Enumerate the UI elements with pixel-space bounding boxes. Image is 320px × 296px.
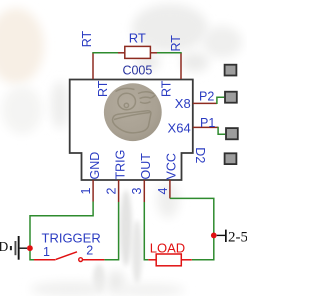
svg-text:C005: C005 <box>122 64 152 78</box>
svg-text:RT: RT <box>80 30 94 47</box>
svg-text:LOAD: LOAD <box>150 240 185 255</box>
svg-text:RT: RT <box>169 35 183 52</box>
svg-text:RT: RT <box>160 80 174 97</box>
svg-text:D2: D2 <box>193 147 207 163</box>
svg-text:GND: GND <box>88 152 102 180</box>
svg-text:1: 1 <box>43 245 50 259</box>
svg-text:3: 3 <box>130 188 144 195</box>
svg-text:2: 2 <box>86 244 93 258</box>
svg-text:TRIG: TRIG <box>114 150 128 180</box>
svg-text:RT: RT <box>129 31 146 46</box>
svg-text:D: D <box>0 239 9 254</box>
svg-text:X64: X64 <box>168 121 191 136</box>
svg-text:RT: RT <box>96 80 110 97</box>
svg-text:VCC: VCC <box>165 153 179 179</box>
svg-text:2: 2 <box>105 188 119 195</box>
svg-text:P2: P2 <box>199 90 214 104</box>
svg-text:P1: P1 <box>200 116 215 130</box>
svg-text:X8: X8 <box>175 96 191 111</box>
svg-text:1: 1 <box>79 188 93 195</box>
svg-text:2-5: 2-5 <box>228 229 247 245</box>
svg-text:4: 4 <box>156 188 170 195</box>
svg-text:OUT: OUT <box>139 153 153 180</box>
